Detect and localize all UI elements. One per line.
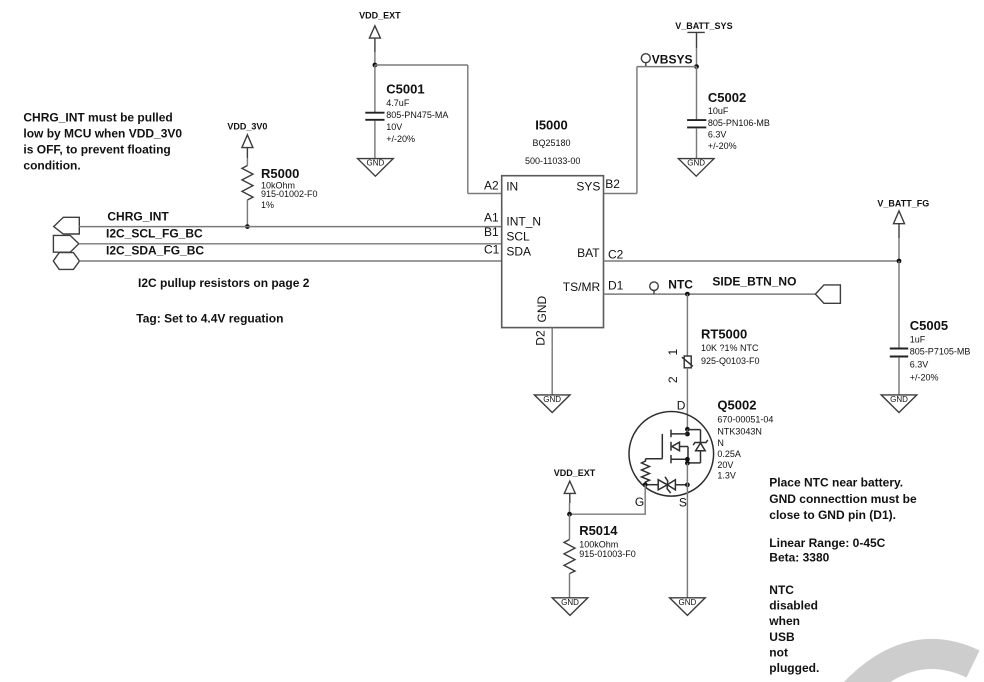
svg-text:500-11033-00: 500-11033-00 — [525, 156, 580, 166]
svg-text:VBSYS: VBSYS — [652, 52, 693, 66]
svg-text:GND: GND — [687, 159, 705, 168]
mosfet channel and gate — [662, 430, 688, 464]
diode body zener — [687, 430, 707, 463]
svg-text:6.3V: 6.3V — [910, 359, 929, 369]
node source zener junction — [685, 482, 690, 487]
wire gate down and left — [570, 485, 646, 515]
svg-text:plugged.: plugged. — [769, 661, 819, 675]
svg-text:when: when — [768, 614, 800, 628]
svg-text:CHRG_INT: CHRG_INT — [107, 209, 169, 223]
svg-text:805-P7105-MB: 805-P7105-MB — [910, 346, 971, 356]
svg-text:Beta: 3380: Beta: 3380 — [769, 550, 829, 564]
wire A2 pin stub — [468, 193, 502, 195]
svg-text:805-PN475-MA: 805-PN475-MA — [386, 110, 448, 120]
svg-text:SDA: SDA — [506, 244, 531, 258]
ground below C5005 — [881, 395, 917, 413]
wire C5001 bottom to ground — [374, 121, 376, 159]
svg-text:D2: D2 — [533, 330, 547, 346]
svg-text:10V: 10V — [386, 122, 402, 132]
op-amp U1 / IC I5000 BQ25180 — [502, 117, 604, 327]
svg-text:10K ?1% NTC: 10K ?1% NTC — [701, 343, 759, 353]
svg-text:GND: GND — [561, 598, 579, 607]
node source diode junction — [685, 461, 690, 466]
wire junction right — [375, 64, 468, 66]
svg-text:SIDE_BTN_NO: SIDE_BTN_NO — [712, 275, 796, 289]
wire down to IN pin — [467, 65, 469, 194]
wire D2 GND stub — [551, 328, 553, 395]
svg-text:USB: USB — [769, 630, 795, 644]
svg-text:4.7uF: 4.7uF — [386, 98, 410, 108]
node drain diode junction — [685, 427, 690, 432]
net label VBSYS probe — [641, 52, 692, 66]
svg-text:1: 1 — [666, 349, 680, 356]
wire VDD_EXT to junction — [569, 503, 571, 514]
wire BAT to C5005 — [898, 261, 900, 348]
svg-text:INT_N: INT_N — [506, 215, 541, 229]
svg-text:V_BATT_FG: V_BATT_FG — [877, 199, 929, 209]
svg-text:6.3V: 6.3V — [708, 129, 727, 139]
connector I2C_SCL_FG_BC (off-page) — [53, 235, 78, 252]
wire R5014 to ground — [569, 574, 571, 598]
diode back-to-back zeners gate-source — [645, 477, 687, 493]
power symbol VDD_EXT (top) — [359, 11, 401, 53]
svg-text:D1: D1 — [608, 279, 624, 293]
resistor R5000 — [242, 158, 318, 210]
svg-text:805-PN106-MB: 805-PN106-MB — [708, 118, 770, 128]
svg-text:1uF: 1uF — [910, 334, 926, 344]
connector CHRG_INT (off-page) — [54, 217, 80, 234]
svg-text:C5005: C5005 — [910, 318, 948, 333]
wire V_BATT_FG stem — [898, 238, 900, 261]
power symbol V_BATT_SYS — [675, 21, 732, 48]
wire junction to C5001 top — [374, 65, 376, 112]
svg-text:GND: GND — [367, 159, 385, 168]
svg-text:R5014: R5014 — [579, 523, 618, 538]
svg-text:N: N — [717, 438, 724, 448]
node gate pulldown junction — [567, 512, 572, 517]
svg-text:Place NTC near battery.: Place NTC near battery. — [769, 476, 903, 490]
ground below C5001 — [358, 159, 394, 177]
wire source to ground — [686, 463, 688, 598]
resistor R5014 — [564, 514, 636, 573]
svg-text:VDD_EXT: VDD_EXT — [554, 468, 596, 478]
svg-text:1%: 1% — [261, 200, 274, 210]
note top-left — [23, 110, 182, 172]
wire SYS net vertical — [636, 67, 638, 194]
svg-text:Tag: Set to 4.4V reguation: Tag: Set to 4.4V reguation — [136, 312, 283, 326]
wire junction to C5002 top — [696, 67, 698, 120]
svg-text:GND: GND — [679, 598, 697, 607]
svg-text:GND: GND — [535, 296, 549, 323]
node source stub junction — [685, 457, 690, 462]
svg-text:TS/MR: TS/MR — [563, 280, 601, 294]
svg-text:not: not — [769, 645, 788, 659]
svg-text:+/-20%: +/-20% — [386, 134, 415, 144]
svg-text:C2: C2 — [608, 248, 624, 262]
svg-text:I2C_SDA_FG_BC: I2C_SDA_FG_BC — [106, 244, 204, 258]
power symbol VDD_EXT (bottom) — [554, 468, 596, 503]
svg-text:B2: B2 — [605, 177, 620, 191]
svg-text:20V: 20V — [717, 460, 733, 470]
svg-text:+/-20%: +/-20% — [910, 372, 939, 382]
wire C5005 bottom to ground — [898, 357, 900, 395]
svg-text:Q5002: Q5002 — [717, 398, 756, 413]
resistor gate internal — [642, 459, 663, 485]
svg-text:CHRG_INT must be pulled: CHRG_INT must be pulled — [23, 110, 172, 124]
svg-text:VDD_EXT: VDD_EXT — [359, 11, 401, 21]
capacitor C5005 — [890, 318, 971, 382]
node NTC junction — [685, 292, 690, 297]
svg-text:C1: C1 — [484, 242, 500, 256]
svg-text:A1: A1 — [484, 211, 499, 225]
capacitor C5002 — [687, 90, 770, 151]
wire SYS net horizontal — [637, 66, 697, 68]
svg-text:condition.: condition. — [23, 158, 80, 172]
wire drain segment — [686, 429, 688, 434]
svg-text:VDD_3V0: VDD_3V0 — [227, 121, 267, 131]
svg-text:NTK3043N: NTK3043N — [717, 427, 762, 437]
wire BAT C2 — [604, 260, 900, 262]
svg-text:C5001: C5001 — [386, 81, 424, 96]
svg-text:2: 2 — [666, 376, 680, 383]
svg-text:NTC: NTC — [769, 583, 794, 597]
ground below C5002 — [678, 159, 714, 177]
svg-text:RT5000: RT5000 — [701, 326, 747, 341]
wire CHRG_INT — [79, 226, 501, 228]
wire D1 TS/MR to SIDE_BTN_NO — [604, 293, 816, 295]
wire NTC down to RT5000 — [686, 294, 688, 356]
power symbol VDD_3V0 — [227, 121, 267, 158]
svg-text:BAT: BAT — [577, 246, 600, 260]
node BAT junction — [897, 259, 902, 264]
wire V_BATT_SYS to junction — [696, 48, 698, 67]
svg-text:B1: B1 — [484, 225, 499, 239]
svg-text:NTC: NTC — [668, 278, 693, 292]
node VDD_EXT junction — [373, 63, 378, 68]
svg-text:GND connecttion must be: GND connecttion must be — [769, 492, 917, 506]
svg-text:R5000: R5000 — [261, 166, 299, 181]
thermistor RT5000 — [666, 326, 759, 383]
wire C5002 bottom to ground — [696, 128, 698, 159]
svg-text:close to GND pin (D1).: close to GND pin (D1). — [769, 508, 896, 522]
svg-text:SCL: SCL — [506, 230, 530, 244]
note Place NTC — [768, 476, 917, 676]
svg-text:10uF: 10uF — [708, 106, 729, 116]
svg-text:SYS: SYS — [576, 179, 600, 193]
power symbol V_BATT_FG — [877, 199, 929, 238]
node VBSYS junction — [694, 64, 699, 69]
svg-text:low by MCU when VDD_3V0: low by MCU when VDD_3V0 — [23, 126, 182, 140]
svg-text:BQ25180: BQ25180 — [532, 138, 570, 148]
node gate junction — [643, 482, 648, 487]
svg-text:915-01003-F0: 915-01003-F0 — [579, 549, 636, 559]
svg-text:I2C pullup resistors on page 2: I2C pullup resistors on page 2 — [138, 276, 310, 290]
svg-text:+/-20%: +/-20% — [708, 141, 737, 151]
wire B2 pin stub — [604, 193, 637, 195]
ground below source — [670, 598, 706, 616]
svg-text:IN: IN — [506, 179, 518, 193]
svg-text:1.3V: 1.3V — [717, 470, 736, 480]
wire I2C_SCL_FG_BC — [79, 243, 502, 245]
svg-text:GND: GND — [890, 395, 908, 404]
svg-text:V_BATT_SYS: V_BATT_SYS — [675, 21, 732, 31]
svg-text:670-00051-04: 670-00051-04 — [717, 415, 773, 425]
capacitor C5001 — [365, 81, 448, 143]
svg-text:G: G — [635, 495, 644, 509]
watermark arc — [846, 654, 973, 682]
connector SIDE_BTN_NO (off-page) — [815, 285, 840, 303]
svg-text:915-01002-F0: 915-01002-F0 — [261, 189, 318, 199]
wire R5000 to CHRG_INT — [246, 200, 248, 227]
net label NTC probe — [650, 278, 694, 295]
transistor Q5002 — [629, 398, 773, 510]
svg-text:is OFF, to prevent floating: is OFF, to prevent floating — [23, 142, 170, 156]
svg-text:disabled: disabled — [769, 599, 818, 613]
node drain stub junction — [685, 432, 690, 437]
wire I2C_SDA_FG_BC — [80, 260, 502, 262]
svg-text:0.25A: 0.25A — [717, 449, 741, 459]
svg-text:Linear Range: 0-45C: Linear Range: 0-45C — [769, 536, 885, 550]
connector I2C_SDA_FG_BC (off-page) — [53, 253, 79, 270]
wire VDD_EXT stem to junction — [374, 52, 376, 65]
svg-text:I5000: I5000 — [535, 117, 568, 132]
svg-text:A2: A2 — [484, 178, 499, 192]
ground below D2 — [534, 395, 570, 413]
wire RT5000 to drain — [686, 368, 688, 430]
node CHRG_INT junction — [245, 224, 250, 229]
svg-text:C5002: C5002 — [708, 90, 746, 105]
svg-text:D: D — [677, 398, 686, 412]
svg-text:GND: GND — [543, 395, 561, 404]
svg-text:S: S — [679, 495, 687, 509]
svg-text:100kOhm: 100kOhm — [579, 540, 618, 550]
ground below R5014 — [552, 598, 588, 616]
svg-text:925-Q0103-F0: 925-Q0103-F0 — [701, 356, 760, 366]
svg-text:I2C_SCL_FG_BC: I2C_SCL_FG_BC — [106, 227, 203, 241]
